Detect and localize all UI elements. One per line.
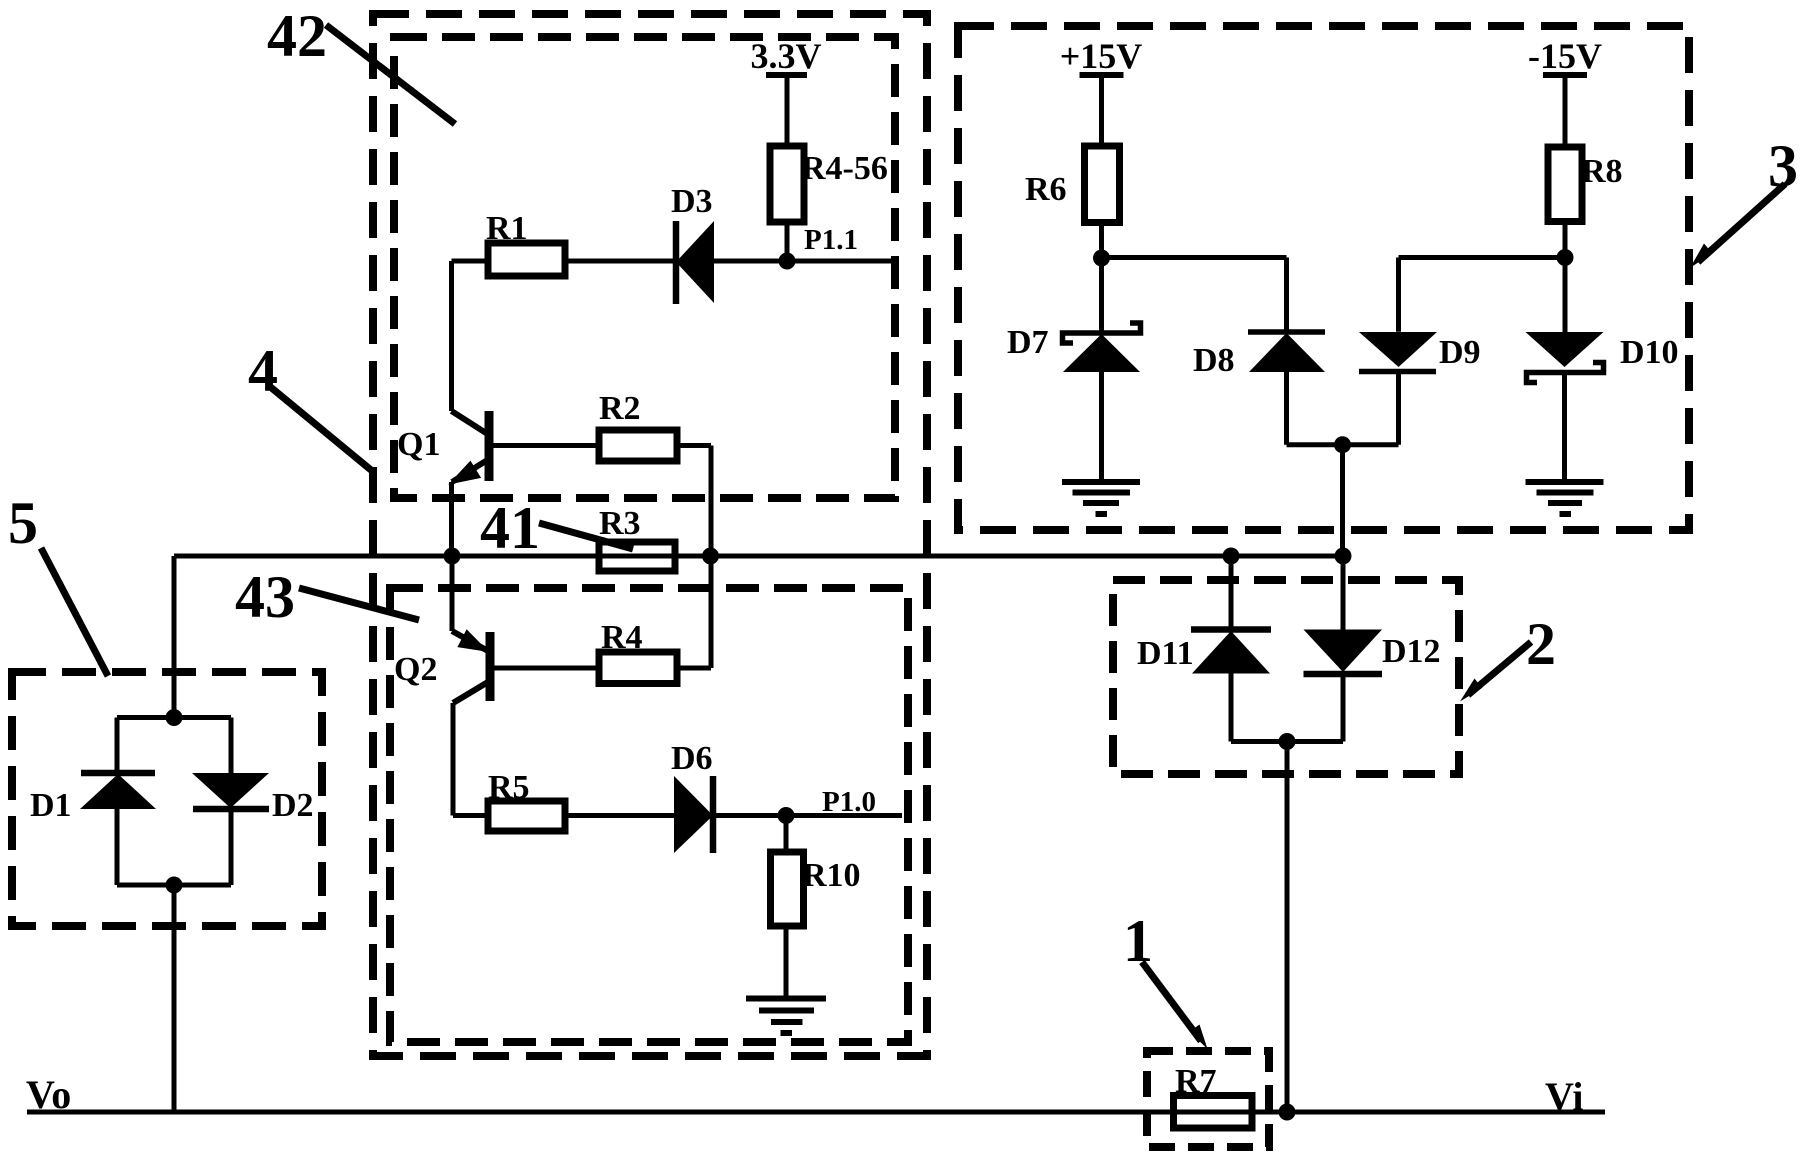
wire D8-D9 node down to bus	[1340, 445, 1345, 556]
svg-text:D9: D9	[1439, 334, 1481, 371]
wire bus to D11	[1229, 556, 1234, 630]
leader line for label 41	[539, 523, 633, 549]
node junction dots	[166, 249, 1574, 1121]
zener diode D7	[1063, 323, 1141, 372]
box 5 output diode clamp dashed box	[12, 672, 322, 926]
resistor R7	[1174, 1096, 1253, 1129]
svg-text:R1: R1	[486, 210, 528, 247]
svg-text:D11: D11	[1137, 635, 1194, 672]
wire R1 left corner down to Q1 collector	[449, 261, 454, 411]
node bus-D12	[1335, 548, 1352, 565]
wire bottom Vo-Vi line	[27, 1110, 1605, 1115]
svg-text:Vo: Vo	[26, 1072, 71, 1117]
svg-text:P1.0: P1.0	[822, 786, 876, 818]
wire bus to D12	[1341, 556, 1346, 630]
svg-text:3.3V: 3.3V	[751, 36, 822, 76]
svg-text:R6: R6	[1025, 171, 1067, 208]
box 3 bias network dashed box	[958, 26, 1689, 530]
svg-text:Vi: Vi	[1545, 1074, 1584, 1119]
leader line for label 4	[268, 385, 371, 470]
wire R5 to D6 to P1.0	[565, 813, 902, 818]
wire P1.1 horizontal	[787, 259, 891, 264]
node box2 bottom	[1279, 733, 1296, 750]
svg-text:1: 1	[1123, 908, 1153, 974]
svg-text:42: 42	[267, 3, 327, 69]
wire 3.3V to R4-56	[785, 75, 790, 146]
power +15V supply bar	[1080, 72, 1124, 78]
svg-text:R4-56: R4-56	[801, 150, 888, 187]
svg-text:R7: R7	[1175, 1063, 1217, 1100]
leader line for label 5	[41, 548, 108, 676]
resistor R8	[1548, 147, 1582, 222]
box 42 upper inner dashed box	[394, 37, 895, 498]
wire P1.0 node to R10	[784, 816, 789, 853]
diode D1	[80, 773, 156, 809]
wire D12 bottom	[1341, 674, 1346, 742]
svg-text:5: 5	[8, 490, 38, 556]
wire box5 top branch	[117, 715, 231, 720]
wire D10 to ground	[1562, 373, 1567, 483]
leader arrow for label 1	[1142, 962, 1208, 1049]
wire main bus horizontal	[174, 554, 1345, 559]
svg-text:D1: D1	[30, 787, 72, 824]
node box5 top	[166, 709, 183, 726]
node D8-D9 junction	[1334, 436, 1351, 453]
wire Q2 collector down to R5	[453, 703, 488, 816]
leader line for label 43	[299, 588, 419, 620]
wire +15V to R6	[1099, 75, 1104, 146]
svg-text:Q2: Q2	[394, 651, 437, 688]
node below R8	[1557, 249, 1574, 266]
node below R6	[1093, 250, 1110, 267]
wire D1 bottom	[115, 809, 120, 885]
resistor R4-56	[770, 146, 804, 222]
svg-text:D7: D7	[1007, 324, 1049, 361]
resistor R1	[488, 243, 565, 276]
diode D8	[1248, 332, 1325, 372]
resistor R5	[488, 801, 565, 831]
node R7-Vi junction	[1279, 1104, 1296, 1121]
box 4 driver unit outer dashed box	[373, 14, 927, 1056]
svg-text:D10: D10	[1620, 334, 1679, 371]
wire box5 drop to Vo line	[172, 885, 177, 1112]
wire R8 to D10	[1563, 222, 1568, 333]
diode D6	[674, 776, 713, 853]
box 1 input resistor dashed box	[1147, 1051, 1269, 1147]
leader line for label 42	[326, 25, 455, 124]
wire D9 bottom	[1396, 372, 1401, 445]
wire right vertical R2-R4	[709, 446, 714, 669]
svg-text:41: 41	[480, 495, 540, 561]
wire D2 drop	[229, 718, 234, 774]
ground below R10	[746, 999, 826, 1034]
node bus-R2R4 vertical	[702, 548, 719, 565]
node P1.0	[778, 807, 795, 824]
wire R4 right to vertical	[677, 666, 711, 671]
transistor Q2	[452, 631, 490, 703]
diode D9	[1359, 332, 1437, 372]
svg-text:R10: R10	[802, 857, 861, 894]
wire bus down to Q2 emitter	[450, 556, 455, 631]
wire -15V to R8	[1563, 75, 1568, 147]
ground below D10	[1526, 482, 1604, 514]
wire bus left drop to box 5	[172, 556, 177, 718]
wire Q1 base to R2	[489, 443, 599, 448]
wire D1 anode drop	[115, 718, 120, 774]
wire D2 bottom	[229, 809, 234, 885]
wire R1 to D3 to P1.1 node	[452, 259, 788, 264]
wire box5 bottom branch	[117, 883, 231, 888]
wire box2 node down to Vi line	[1285, 742, 1290, 1113]
svg-text:-15V: -15V	[1528, 36, 1602, 76]
diode D2	[192, 773, 269, 809]
resistor R2	[599, 430, 677, 461]
wire R10 to ground	[784, 926, 789, 998]
wire D7 to ground	[1099, 372, 1104, 482]
svg-text:43: 43	[235, 564, 295, 630]
svg-text:D3: D3	[671, 183, 713, 220]
resistor R3	[599, 542, 675, 571]
power -15V supply bar	[1543, 72, 1587, 78]
node box5 bottom	[166, 877, 183, 894]
leader arrow for label 2	[1460, 642, 1531, 702]
wire R6 to D7	[1099, 223, 1104, 334]
diode D11	[1191, 630, 1271, 674]
svg-text:D6: D6	[671, 740, 713, 777]
svg-text:R4: R4	[601, 619, 643, 656]
zener diode D10	[1526, 332, 1604, 383]
ground below D7	[1062, 482, 1140, 514]
box 2 input diode clamp dashed box	[1113, 580, 1459, 774]
svg-text:D2: D2	[272, 787, 314, 824]
wire D11 bottom	[1229, 674, 1234, 742]
svg-text:4: 4	[248, 338, 278, 404]
diode D12	[1304, 630, 1383, 675]
node bus-D11	[1223, 548, 1240, 565]
svg-text:D8: D8	[1193, 342, 1235, 379]
wire Q2 base to R4	[490, 666, 599, 671]
svg-text:3: 3	[1768, 133, 1798, 199]
svg-text:Q1: Q1	[397, 426, 440, 463]
power 3.3V supply bar	[766, 72, 807, 78]
box 43 lower inner dashed box	[390, 588, 908, 1042]
wire R2 right to vertical	[677, 443, 711, 448]
wire Q1 emitter down to bus	[449, 482, 454, 556]
svg-text:D12: D12	[1382, 633, 1441, 670]
wire D9 top	[1399, 258, 1566, 332]
svg-text:+15V: +15V	[1060, 36, 1143, 76]
resistor R10	[771, 852, 804, 926]
wire box2 bottom branch	[1231, 739, 1343, 744]
wire D8 bottom	[1287, 372, 1399, 445]
svg-text:2: 2	[1526, 611, 1556, 677]
svg-text:R2: R2	[599, 390, 641, 427]
wire R6 node to D8	[1102, 258, 1287, 333]
transistor Q1	[451, 411, 489, 483]
svg-text:P1.1: P1.1	[804, 224, 858, 256]
svg-text:R8: R8	[1581, 153, 1623, 190]
resistor R4	[599, 652, 677, 684]
leader arrow for label 3	[1690, 184, 1785, 268]
diode D3	[676, 221, 714, 304]
resistor R6	[1085, 146, 1120, 223]
node bus-Q1 emitter	[444, 548, 461, 565]
wire R4-56 to P1.1 node	[785, 222, 790, 261]
svg-text:R3: R3	[599, 505, 641, 542]
svg-text:R5: R5	[488, 769, 530, 806]
node P1.1	[779, 253, 796, 270]
